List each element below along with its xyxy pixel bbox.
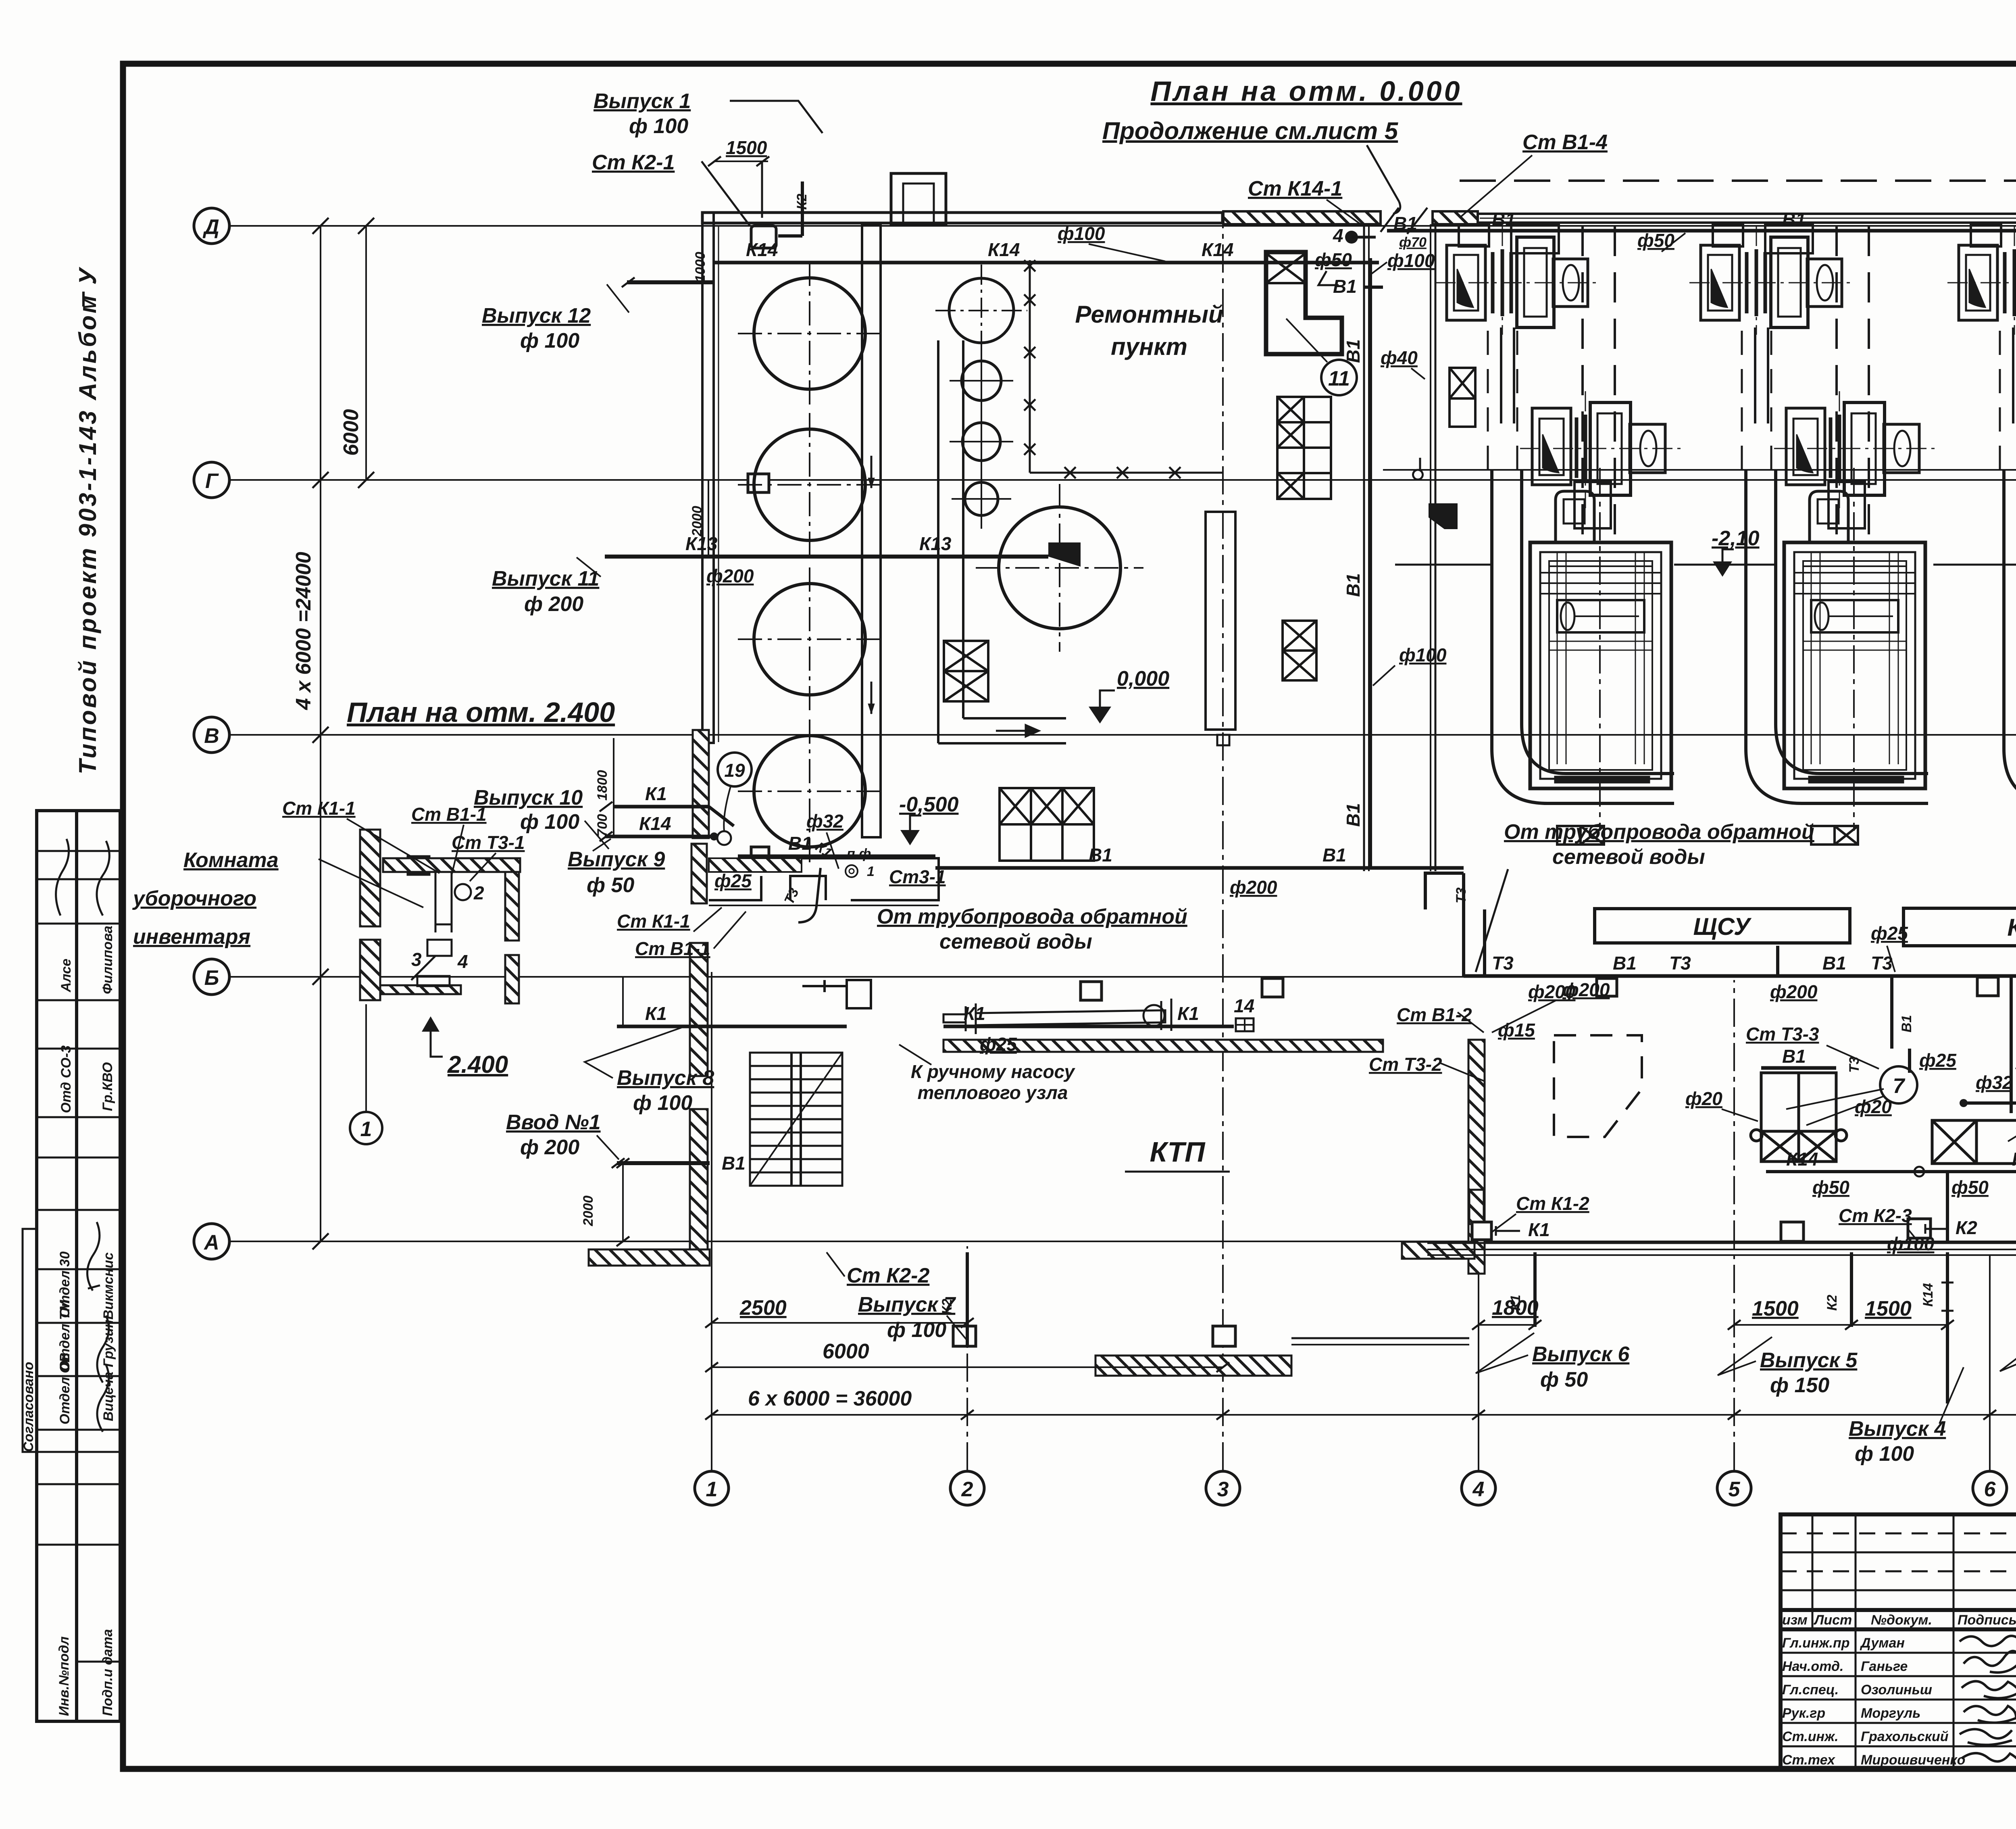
svg-text:Викмснис: Викмснис: [101, 1252, 116, 1320]
top wall row Д left part (double line): [702, 181, 2016, 743]
svg-text:КИП: КИП: [2007, 914, 2016, 941]
column line 5: [1733, 980, 1735, 1470]
tank T2: [754, 429, 865, 540]
svg-text:Грахольский: Грахольский: [1861, 1729, 1949, 1744]
svg-text:К14: К14: [1920, 1283, 1936, 1307]
svg-text:Ст В1-1: Ст В1-1: [635, 938, 710, 959]
svg-text:Мирошвиченко: Мирошвиченко: [1861, 1752, 1965, 1768]
svg-text:ф70: ф70: [1399, 235, 1427, 250]
axis line Б: [229, 976, 2016, 978]
top wall hatched segment right of break: [1433, 211, 1478, 224]
svg-text:В: В: [204, 724, 219, 748]
dim 1800 vert (Выпуск 8): [622, 977, 624, 1026]
basement edge line between boilers: [1383, 469, 2016, 471]
axis circles left column: [194, 208, 2016, 1505]
svg-text:В1: В1: [1333, 276, 1357, 297]
svg-text:К1: К1: [1528, 1219, 1550, 1240]
rack long rectangle: [1206, 512, 1235, 730]
КТП top wall hatched: [943, 1040, 1383, 1052]
svg-text:6: 6: [1984, 1478, 1996, 1501]
svg-text:Ст К1-1: Ст К1-1: [617, 911, 690, 932]
column line 2: [966, 1246, 968, 1470]
svg-text:ф50: ф50: [1812, 1177, 1849, 1198]
column line 6: [1989, 1254, 1991, 1470]
К14 main sewer line along top: [714, 261, 1379, 265]
svg-text:1800: 1800: [595, 770, 610, 801]
svg-text:ф15: ф15: [1498, 1020, 1535, 1041]
circled 19 callout: [718, 753, 752, 786]
signatures squiggles: [1960, 1636, 2016, 1762]
svg-text:Выпуск 12: Выпуск 12: [482, 304, 591, 327]
svg-text:Ст К1-2: Ст К1-2: [1516, 1193, 1589, 1214]
svg-text:инвентаря: инвентаря: [133, 925, 250, 949]
stamp signatures squiggles: [56, 839, 110, 1432]
svg-text:К14: К14: [746, 239, 778, 260]
tank T1: [754, 278, 865, 389]
stairs in КТП: [750, 1053, 842, 1186]
svg-text:Ст К1-1: Ст К1-1: [282, 798, 356, 819]
svg-text:изм: изм: [1782, 1612, 1808, 1628]
К14 riser to basement: [1946, 1172, 1949, 1243]
svg-text:ф50: ф50: [1315, 249, 1352, 270]
mark 2.400 with arrow: [422, 1016, 439, 1032]
svg-text:Лист: Лист: [1813, 1612, 1852, 1628]
svg-text:ф 100: ф 100: [1855, 1442, 1914, 1466]
svg-text:ЩСУ: ЩСУ: [1693, 913, 1752, 940]
svg-text:1: 1: [360, 1118, 372, 1141]
svg-text:сетевой воды: сетевой воды: [939, 930, 1092, 953]
svg-text:В1: В1: [1492, 209, 1516, 230]
svg-text:ф 100: ф 100: [520, 329, 579, 352]
КИП room box: [1904, 908, 2016, 946]
svg-text:В1: В1: [1782, 1046, 1806, 1067]
Ввод №1 В1 line: [617, 1161, 710, 1165]
svg-text:ф100: ф100: [1399, 644, 1447, 665]
svg-text:Ст.инж.: Ст.инж.: [1782, 1729, 1839, 1744]
svg-text:4: 4: [1333, 225, 1343, 246]
axis letters: [202, 215, 2016, 1501]
svg-text:В1: В1: [1343, 573, 1364, 597]
svg-text:Отд СО-3: Отд СО-3: [58, 1045, 74, 1113]
left wall hatched section В-Б: [693, 730, 709, 838]
svg-text:В1: В1: [1613, 953, 1637, 974]
checker box 2-cell near col 3: [1283, 621, 1316, 680]
svg-text:ф200: ф200: [1770, 981, 1818, 1002]
svg-text:ф 100: ф 100: [629, 115, 688, 138]
left wall of tank hall (double line): [702, 213, 714, 743]
svg-text:-2,10: -2,10: [1712, 527, 1760, 550]
svg-text:ф40: ф40: [1381, 347, 1418, 368]
plan2400 left wall: [360, 830, 380, 926]
svg-text:В1: В1: [722, 1153, 746, 1174]
title block frame: [1781, 1514, 2016, 1769]
svg-text:В1: В1: [1343, 339, 1364, 363]
В1 line to device 6: [1964, 1101, 2016, 1105]
svg-text:Ганьге: Ганьге: [1861, 1659, 1908, 1674]
device 6 left unit: [1932, 1120, 2016, 1164]
svg-text:Выпуск 9: Выпуск 9: [568, 848, 665, 871]
tank T3: [754, 584, 865, 695]
svg-text:6000: 6000: [823, 1340, 869, 1363]
svg-text:Комната: Комната: [183, 849, 279, 872]
svg-text:Моргуль: Моргуль: [1861, 1706, 1920, 1721]
svg-text:План на отм. 2.400: План на отм. 2.400: [347, 697, 615, 728]
checker box 2x2 near tank T3: [944, 641, 988, 701]
svg-text:теплового узла: теплового узла: [918, 1082, 1068, 1103]
svg-text:пункт: пункт: [1111, 333, 1187, 360]
svg-text:7: 7: [1893, 1074, 1906, 1098]
svg-text:Гл.инж.пр: Гл.инж.пр: [1782, 1635, 1850, 1651]
roof protrusion above top wall: [891, 173, 946, 224]
svg-text:Г: Г: [205, 469, 219, 493]
svg-text:Ст Т3-3: Ст Т3-3: [1746, 1024, 1819, 1045]
boiler unit 3: [1947, 224, 2016, 845]
hall left boundary wall (В1 riser wall): [1363, 224, 1365, 871]
svg-text:А: А: [203, 1231, 219, 1254]
svg-text:В1: В1: [1089, 845, 1112, 865]
ЩСУ room box: [1595, 909, 1850, 943]
svg-text:1500: 1500: [1752, 1297, 1799, 1320]
svg-text:К2: К2: [1824, 1295, 1840, 1311]
svg-text:6 x 6000 = 36000: 6 x 6000 = 36000: [748, 1387, 912, 1410]
svg-text:От трубопровода обратной: От трубопровода обратной: [1504, 820, 1814, 844]
svg-text:Выпуск 4: Выпуск 4: [1849, 1417, 1946, 1441]
storage checker 2x4 below room 11: [1277, 397, 1331, 499]
svg-text:Ст.тех: Ст.тех: [1782, 1752, 1836, 1768]
К14 long riser (Выпуск 4): [1946, 1252, 1949, 1404]
svg-text:ф 200: ф 200: [524, 592, 583, 616]
К2 riser down col 2: [966, 1252, 969, 1347]
svg-text:Т3: Т3: [1847, 1057, 1862, 1073]
svg-text:План на отм. 0.000: План на отм. 0.000: [1150, 75, 1462, 107]
svg-text:0,000: 0,000: [1117, 667, 1169, 690]
bottom wall hatched bar at А under plan 2.400 zone: [589, 1249, 710, 1266]
top wall hatched segment left of break: [1223, 211, 1381, 224]
svg-text:Д: Д: [202, 215, 219, 239]
К2 riser and dims 1500 1500 (Выпуск 5): [1850, 1252, 1853, 1327]
svg-text:Согласовано: Согласовано: [21, 1362, 36, 1452]
svg-text:К13: К13: [919, 533, 952, 554]
svg-text:В1: В1: [1899, 1015, 1914, 1032]
svg-text:От трубопровода обратной: От трубопровода обратной: [877, 905, 1187, 928]
svg-text:2000: 2000: [689, 506, 705, 537]
drainage channel vertical: [862, 224, 881, 837]
signature rows: [1782, 1635, 1965, 1768]
plan2400 inner fixtures: [411, 872, 471, 986]
left stamp table frame: [23, 811, 120, 1721]
svg-text:Нач.отд.: Нач.отд.: [1782, 1659, 1843, 1674]
svg-text:Выпуск 7: Выпуск 7: [858, 1293, 956, 1316]
thermal unit entry walls: [709, 858, 939, 1008]
svg-text:К2: К2: [794, 194, 810, 210]
svg-text:Ст К2-3: Ст К2-3: [1839, 1205, 1912, 1226]
К1 outlet line (Выпуск 10): [614, 805, 709, 809]
Т3 В1 risers to devices: [1778, 946, 2011, 1113]
В1 branch with п.ф. mark: [738, 855, 935, 858]
svg-text:ф 50: ф 50: [1540, 1368, 1588, 1391]
svg-text:Отдел ОВ: Отдел ОВ: [57, 1353, 73, 1424]
axis line А: [229, 1241, 2016, 1242]
svg-text:ф25: ф25: [1919, 1050, 1957, 1071]
svg-text:1800: 1800: [1492, 1296, 1539, 1320]
svg-text:В1: В1: [1782, 209, 1806, 230]
svg-text:11: 11: [1328, 367, 1350, 390]
svg-text:ф100: ф100: [1058, 223, 1105, 244]
КТП south lower wall line cols 3-4: [1291, 1338, 1469, 1345]
svg-text:ф 50: ф 50: [587, 874, 634, 897]
svg-text:Гр.КВО: Гр.КВО: [100, 1062, 115, 1111]
svg-text:К1: К1: [1177, 1003, 1199, 1024]
svg-text:ф32: ф32: [1976, 1072, 2013, 1093]
svg-text:сетевой воды: сетевой воды: [1552, 845, 1705, 869]
svg-text:Рук.гр: Рук.гр: [1782, 1706, 1825, 1721]
svg-text:6000: 6000: [339, 409, 363, 456]
В1 riser line with labels: [1369, 258, 1372, 868]
checker box 3x2 below deaerator: [1000, 788, 1094, 861]
svg-text:-0,500: -0,500: [899, 793, 959, 816]
ramp hatched bar below КТП: [1095, 1356, 1291, 1376]
svg-text:Озолиньш: Озолиньш: [1861, 1682, 1932, 1698]
svg-text:Продолжение см.лист 5: Продолжение см.лист 5: [1102, 117, 1399, 144]
svg-text:19: 19: [724, 760, 745, 781]
Выпуск 8 К1 outlet: [617, 1025, 847, 1028]
column circle 1 of detail plan: [350, 1112, 382, 1144]
svg-text:уборочного: уборочного: [132, 887, 256, 910]
svg-text:Выпуск 1: Выпуск 1: [594, 90, 691, 113]
svg-text:ф25: ф25: [1871, 923, 1908, 944]
svg-text:Ст К2-2: Ст К2-2: [847, 1264, 929, 1287]
svg-text:1: 1: [867, 864, 875, 879]
svg-text:№докум.: №докум.: [1871, 1612, 1932, 1628]
deaerator big circle: [999, 507, 1120, 629]
svg-text:Ввод №1: Ввод №1: [506, 1111, 601, 1134]
small tank S3: [962, 423, 1000, 461]
svg-text:700: 700: [595, 814, 610, 837]
room 11 L-shaped walls: [1266, 252, 1342, 354]
bottom wall А hatched bar left of col 4: [1402, 1242, 1475, 1259]
svg-text:ф 100: ф 100: [520, 810, 579, 834]
svg-text:ф 150: ф 150: [1770, 1374, 1829, 1397]
svg-text:Т3: Т3: [1454, 887, 1469, 903]
svg-text:ф 100: ф 100: [887, 1318, 946, 1342]
svg-text:Ст Т3-1: Ст Т3-1: [452, 832, 525, 853]
hand pump long device: [943, 999, 1171, 1034]
svg-text:Филипова: Филипова: [100, 926, 115, 994]
svg-text:К ручному насосу: К ручному насосу: [911, 1061, 1076, 1082]
svg-text:В1: В1: [1322, 845, 1346, 865]
drainage channel 2 L-shaped: [938, 340, 1066, 743]
column line 4: [1478, 1258, 1479, 1470]
stamp table rows: [37, 851, 120, 1662]
svg-text:Выпуск 11: Выпуск 11: [492, 567, 599, 590]
svg-text:ф32: ф32: [806, 811, 843, 832]
В1 water main along row Д in boiler hall: [1387, 229, 2016, 233]
svg-text:Выпуск 6: Выпуск 6: [1532, 1343, 1630, 1366]
small pillar squares on walls: [408, 226, 2016, 1346]
svg-text:КТП: КТП: [1150, 1136, 1206, 1168]
К1 riser and dim 1800 (Выпуск 6): [1533, 1252, 1537, 1327]
КТП left wall hatched Б-А: [690, 943, 708, 1076]
boiler unit 1: [1435, 224, 1681, 845]
В1 elbow into КТП: [1425, 873, 1464, 909]
svg-text:В1: В1: [1822, 953, 1846, 974]
svg-text:ф 100: ф 100: [633, 1091, 692, 1115]
svg-text:14: 14: [1234, 995, 1254, 1016]
svg-text:ф50: ф50: [1637, 230, 1674, 251]
svg-text:1500: 1500: [726, 137, 767, 158]
svg-text:ф200: ф200: [1230, 877, 1277, 898]
pier wall above col 4 at А: [1469, 1190, 1484, 1224]
svg-text:5: 5: [1729, 1478, 1741, 1501]
svg-text:К14: К14: [1786, 1149, 1818, 1170]
plan2400 right wall: [505, 872, 519, 941]
КТП right wall hatched: [1468, 1040, 1485, 1274]
svg-text:2: 2: [473, 882, 484, 903]
tick marks on А wall dim line: [1472, 1320, 2016, 1330]
svg-text:Инв.№подл: Инв.№подл: [56, 1636, 72, 1716]
svg-text:1500: 1500: [1865, 1297, 1912, 1320]
2.400 plan detail: room walls: [360, 830, 520, 1003]
svg-text:Ремонтный: Ремонтный: [1075, 301, 1223, 328]
svg-text:Ст Т3-2: Ст Т3-2: [1369, 1054, 1442, 1075]
svg-text:К14: К14: [1202, 239, 1233, 260]
svg-text:Б: Б: [204, 966, 219, 990]
small tank S4: [965, 482, 998, 515]
dashed pit right of КТП: [1554, 1035, 1642, 1137]
svg-text:К1: К1: [645, 1003, 667, 1024]
svg-text:Ст В1-4: Ст В1-4: [1522, 131, 1608, 154]
svg-text:ф100: ф100: [1387, 250, 1435, 271]
svg-text:Гл.спец.: Гл.спец.: [1782, 1682, 1839, 1698]
svg-text:ф25: ф25: [714, 870, 752, 891]
svg-text:В1: В1: [1393, 213, 1417, 234]
svg-text:2: 2: [961, 1478, 973, 1501]
svg-text:3: 3: [1217, 1478, 1229, 1501]
svg-text:К2: К2: [1956, 1217, 1977, 1238]
small tank S1: [949, 278, 1014, 343]
svg-text:4: 4: [457, 951, 468, 972]
sheet break slant marks in top wall: [1381, 208, 1427, 234]
Т3 heat line row Б: [1464, 974, 2016, 978]
svg-text:ф 200: ф 200: [520, 1136, 579, 1159]
crane beam dashed line above top wall: [1460, 179, 2016, 182]
svg-text:1000: 1000: [693, 252, 708, 282]
svg-text:2500: 2500: [739, 1296, 787, 1320]
axis line В: [229, 734, 2016, 736]
axis line Д: [229, 225, 2016, 227]
svg-text:Думан: Думан: [1860, 1635, 1905, 1651]
title block inner grid left: [1781, 1514, 2016, 1769]
plan2400 top wall: [383, 858, 520, 872]
callout circle 7: [1880, 1066, 1917, 1103]
top wall row Д right part: [1478, 214, 2016, 223]
В1 water line below В axis: [935, 866, 1464, 870]
svg-text:В1: В1: [1343, 803, 1364, 827]
left bay dimension 6000: [365, 226, 367, 480]
column circles 1-7 bottom: [695, 1471, 729, 1505]
svg-text:К1: К1: [964, 1003, 985, 1024]
svg-text:Подп.и дата: Подп.и дата: [100, 1629, 115, 1716]
svg-text:Выпуск 5: Выпуск 5: [1760, 1349, 1858, 1372]
Выпуск 9 К14 outlet: [605, 835, 713, 838]
К13 sewer line: [605, 555, 1048, 559]
svg-text:ф50: ф50: [1951, 1177, 1989, 1198]
stamp rotated texts: [21, 926, 116, 1716]
svg-text:Подпись: Подпись: [1958, 1612, 2016, 1628]
svg-text:ф25: ф25: [980, 1034, 1017, 1055]
svg-text:Алсе: Алсе: [58, 959, 74, 993]
svg-text:ф20: ф20: [1685, 1088, 1722, 1109]
svg-text:Ст3-1: Ст3-1: [889, 866, 946, 887]
svg-text:2000: 2000: [581, 1195, 596, 1226]
Выпуск 12 pipe stub: [627, 280, 714, 284]
svg-text:К14: К14: [988, 239, 1020, 260]
svg-text:Выпуск 8: Выпуск 8: [617, 1066, 714, 1090]
svg-text:Ст К2-1: Ст К2-1: [592, 151, 675, 174]
svg-text:3: 3: [411, 949, 422, 970]
svg-text:К14: К14: [639, 813, 671, 834]
svg-text:ф200: ф200: [1528, 981, 1576, 1002]
plan2400 bottom wall piece: [380, 985, 461, 994]
left overall dimension line 4x6000=24000: [320, 226, 321, 1241]
svg-text:1: 1: [706, 1478, 718, 1501]
svg-text:К14: К14: [2012, 1149, 2016, 1170]
svg-text:4: 4: [1472, 1478, 1485, 1501]
column line 1: [711, 972, 712, 1470]
svg-text:Т3: Т3: [1492, 953, 1514, 974]
svg-text:ф100: ф100: [1887, 1233, 1935, 1254]
svg-text:Выпуск 10: Выпуск 10: [474, 786, 583, 809]
svg-text:Ст К14-1: Ст К14-1: [1248, 177, 1342, 200]
svg-text:Типовой проект 903-1-143 Аль: Типовой проект 903-1-143 Альбом У: [74, 266, 101, 774]
column line 3: [1222, 224, 1224, 1470]
svg-text:Т3: Т3: [1669, 953, 1691, 974]
boiler unit 2: [1689, 224, 1935, 845]
valve and fitting cluster top left of boiler 1: [1413, 368, 1475, 528]
leader and circle 11: [1286, 319, 1327, 362]
device 7 tank with grid: [1751, 1068, 1847, 1162]
small tank S2: [962, 361, 1001, 400]
repair point fence (x-marked): [1024, 260, 1223, 478]
svg-text:В1: В1: [788, 833, 812, 854]
svg-text:4 x 6000 =24000: 4 x 6000 =24000: [292, 552, 315, 710]
axis line Г: [229, 479, 2016, 481]
svg-text:К1: К1: [645, 783, 667, 804]
Т3 В1 risers from КТП corner: [1464, 873, 1485, 976]
tank T4: [754, 736, 865, 847]
К14 drain line under devices: [1766, 1170, 2016, 1173]
svg-text:ф200: ф200: [706, 565, 754, 586]
bottom wall А cols 4-7 (triple thin lines): [1427, 1243, 2016, 1255]
svg-text:2.400: 2.400: [447, 1051, 508, 1078]
К2 riser at top: [801, 181, 804, 236]
